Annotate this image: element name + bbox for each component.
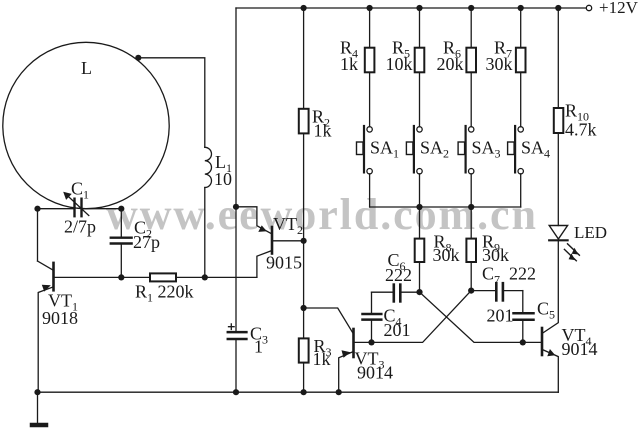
node C3 ground junction [233,389,239,395]
wire cross-couple B to VT3 base [372,291,472,343]
resistor R10 4.7k [557,8,559,108]
resistor R9 30k [470,207,472,239]
bottom ground rail wire [38,391,559,393]
svg-text:SA3: SA3 [472,138,501,161]
capacitor C3 1uF electrolytic [228,331,247,334]
node L top tap [135,55,141,61]
resistor R8 30k [419,207,421,239]
node top rail R5 junction [416,5,422,11]
svg-text:20k: 20k [437,54,464,74]
node VT1 base junction [118,274,124,280]
wire C2 top [120,209,122,237]
svg-text:27p: 27p [133,232,160,252]
svg-text:30k: 30k [433,245,460,265]
svg-text:201: 201 [384,320,411,340]
node VT2 base junction [301,238,307,244]
svg-text:SA4: SA4 [521,138,550,161]
transistor VT3 9014 [352,329,355,357]
node VT3 collector junction [301,305,307,311]
node select rail R8 junction [416,204,422,210]
node top rail R10 junction [555,5,561,11]
svg-text:4.7k: 4.7k [565,120,597,140]
capacitor C2 27p [111,236,132,238]
wire +12V branch left column [235,8,237,331]
wire tank bottom right segment [82,208,121,210]
svg-text:C1: C1 [71,179,89,202]
transistor VT2 9015 [271,227,274,254]
node VT3 base junction [368,339,374,345]
wire L1 bottom to R1 row [204,188,206,278]
svg-text:30k: 30k [486,54,513,74]
node top rail R6 junction [468,5,474,11]
svg-text:C5: C5 [537,299,555,322]
wire R2 bottom to R3 [303,133,305,338]
wire C2 bottom [120,245,122,278]
node B R9/C7 junction [468,288,474,294]
node ground rail left [34,389,40,395]
switch SA4 [518,127,523,132]
svg-text:SA2: SA2 [420,138,449,161]
wire R2 column top [303,8,305,109]
resistor R3 1k [299,338,309,362]
switch SA3 [469,127,474,132]
node L1/R1 junction [202,274,208,280]
capacitor C4 201 [371,321,373,343]
node A R8/C6 junction [416,289,422,295]
transistor VT1 9018 [52,263,55,290]
svg-text:L: L [81,58,92,78]
node VT3 emitter ground junction [336,389,342,395]
capacitor C5 201 [522,291,524,312]
svg-text:1k: 1k [340,54,358,74]
svg-text:R1 220k: R1 220k [135,282,194,305]
node VT4 base junction [520,339,526,345]
node R3 ground junction [301,389,307,395]
svg-text:9018: 9018 [42,308,78,328]
transistor VT4 9014 [541,328,544,355]
resistor R2 1k [299,109,309,134]
svg-text:201: 201 [487,306,514,326]
svg-text:LED: LED [574,223,607,242]
resistor R7 30k [520,8,522,48]
resistor R5 10k [419,8,421,48]
svg-text:10k: 10k [386,54,413,74]
node top rail R2 junction [301,5,307,11]
node top rail R4 junction [367,5,373,11]
antenna coil L [3,42,169,208]
+12V terminal [586,5,591,10]
resistor R6 20k [470,8,472,48]
wire cross-couple A to VT4 base [420,292,523,342]
wire L tap to L1 [138,58,205,148]
node tank left [34,206,40,212]
svg-text:9015: 9015 [266,253,302,273]
wire SA1 to select rail [369,174,371,207]
wire rate select rail [370,206,521,208]
node VT2 emitter tap [233,204,239,210]
svg-text:222: 222 [385,265,412,285]
wire R4 to SA1 [369,72,371,126]
inductor L1 [205,147,212,187]
svg-text:10: 10 [214,169,232,189]
wire R3 bottom [303,363,305,393]
switch SA2 [417,127,422,132]
svg-text:2/7p: 2/7p [64,217,96,237]
LED [549,226,567,240]
svg-text:9014: 9014 [357,363,393,383]
svg-text:1k: 1k [314,121,332,141]
wire R7 to SA4 [520,72,522,126]
svg-text:1k: 1k [313,349,331,369]
node select rail R9 junction [468,204,474,210]
ground symbol [37,392,39,423]
svg-text:30k: 30k [482,245,509,265]
capacitor C6 222 [372,291,393,293]
capacitor C7 222 [471,290,495,292]
svg-text:SA1: SA1 [370,138,399,161]
wire R6 to SA3 [470,72,472,126]
wire R5 to SA2 [419,72,421,126]
wire SA2 to select rail [419,174,421,207]
svg-text:1: 1 [254,337,263,357]
switch SA1 [367,127,372,132]
svg-text:222: 222 [509,264,536,284]
node tank right [118,206,124,212]
resistor R4 1k [369,8,371,48]
wire C3 bottom [235,340,237,392]
node top rail R7 junction [518,5,524,11]
svg-text:9014: 9014 [562,339,598,359]
svg-text:C7: C7 [482,264,500,287]
capacitor C1 (variable 2/7p) [73,199,75,217]
resistor R1 220k [121,276,150,278]
svg-text:+12V: +12V [599,0,639,17]
wire tank bottom left segment [38,208,74,210]
top +12V rail wire [236,7,586,9]
wire SA4 to select rail [520,174,522,207]
wire SA3 to select rail [470,174,472,207]
